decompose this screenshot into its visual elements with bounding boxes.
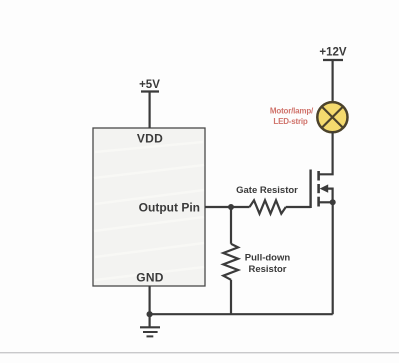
- MOSFET Q1: [311, 170, 333, 209]
- gate bar: [309, 170, 311, 209]
- svg-text:LED-strip: LED-strip: [273, 117, 308, 126]
- load label Motor/lamp/ LED-strip: [270, 107, 314, 127]
- wire pull-down resistor to ground rail: [230, 280, 232, 314]
- wire +5V bar to VDD pin: [149, 92, 151, 129]
- svg-text:Gate Resistor: Gate Resistor: [236, 185, 298, 196]
- bottom divider line: [0, 352, 399, 353]
- channel segment source: [317, 197, 320, 207]
- wire Output Pin to gate resistor: [205, 206, 250, 208]
- wire lamp to MOSFET drain: [319, 132, 333, 175]
- channel segment drain: [317, 171, 320, 181]
- wire MOSFET source to ground rail: [332, 202, 334, 314]
- body arrow: [320, 184, 329, 192]
- svg-text:Resistor: Resistor: [248, 264, 286, 275]
- svg-text:VDD: VDD: [137, 132, 163, 146]
- IC box U1: [93, 128, 205, 286]
- +5V supply rail bar: [141, 90, 159, 92]
- svg-text:GND: GND: [136, 271, 164, 285]
- ground symbol: [140, 314, 160, 336]
- svg-text:Pull-down: Pull-down: [245, 253, 291, 264]
- ground rail wire: [150, 313, 333, 315]
- pull-down resistor label: [245, 253, 291, 276]
- svg-text:Motor/lamp/: Motor/lamp/: [270, 107, 314, 116]
- node A junction dot (output/pull-down): [228, 204, 234, 210]
- wire gate resistor to MOSFET gate: [286, 206, 311, 208]
- svg-text:+5V: +5V: [139, 79, 160, 91]
- svg-text:Output Pin: Output Pin: [139, 201, 200, 215]
- lamp/load LD1 (circle with X): [317, 102, 347, 132]
- gate resistor R1 zigzag: [250, 200, 286, 213]
- wire +12V bar to lamp: [332, 60, 334, 102]
- svg-text:+12V: +12V: [319, 47, 347, 59]
- body stub: [327, 189, 333, 203]
- wire GND pin to ground rail: [149, 286, 151, 314]
- source stub: [319, 201, 333, 203]
- source junction dot: [330, 199, 336, 205]
- channel segment body: [317, 184, 320, 193]
- wire node A to pull-down resistor: [230, 207, 232, 244]
- pull-down resistor R2 zigzag: [223, 244, 238, 280]
- +12V supply rail bar: [323, 59, 343, 61]
- ground node junction dot: [147, 311, 153, 317]
